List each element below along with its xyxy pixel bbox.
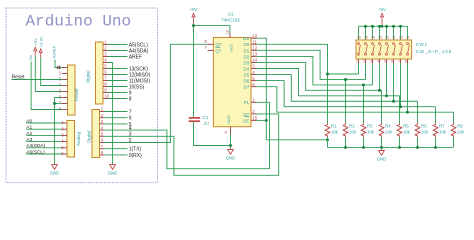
wire switch 4 top feed xyxy=(379,26,381,40)
wire Digital-top pin 6 xyxy=(108,74,128,76)
svg-text:14: 14 xyxy=(252,58,257,63)
wire GND bus under resistors xyxy=(328,146,454,148)
pin Digital-bottom 7 stub xyxy=(100,148,105,150)
svg-text:D2: D2 xyxy=(244,54,250,59)
wire R7 to GND bus xyxy=(435,137,437,147)
junction +5V bus 7 xyxy=(399,25,402,28)
pin U1 VCC 16 stub xyxy=(229,33,231,38)
pin Analog 4 stub xyxy=(62,141,67,143)
wire switch 2 top feed xyxy=(365,26,367,40)
svg-text:7: 7 xyxy=(398,59,400,63)
svg-text:13: 13 xyxy=(252,52,257,57)
junction +5V tee xyxy=(192,24,195,27)
pin U1 Q7-bar 7 (unconnected) xyxy=(208,49,214,51)
wire switch 7 top feed xyxy=(400,26,402,40)
wire Digital-bottom pin 8 xyxy=(104,154,128,156)
wire IOREF to power pin1 xyxy=(55,60,62,68)
svg-text:15: 15 xyxy=(364,35,368,39)
svg-text:GND: GND xyxy=(226,156,236,161)
svg-text:D4: D4 xyxy=(244,66,250,71)
pin U1 DS 10 stub xyxy=(251,37,257,39)
svg-text:SW1: SW1 xyxy=(416,42,428,47)
svg-text:R5: R5 xyxy=(403,124,409,129)
svg-text:A2: A2 xyxy=(26,131,32,137)
header J-power box xyxy=(68,65,76,115)
svg-text:R7: R7 xyxy=(439,124,445,129)
pin U1 D3 14 stub xyxy=(251,61,257,63)
switch element 2 xyxy=(365,43,367,45)
pin Power 7 stub xyxy=(62,103,68,105)
pin Analog 5 stub xyxy=(62,147,67,149)
junction GND bus R2 xyxy=(344,146,347,149)
junction GND bus R6 xyxy=(416,146,419,149)
pin Analog 6 stub xyxy=(62,153,67,155)
svg-text:10: 10 xyxy=(399,35,403,39)
resistor R6 xyxy=(415,123,420,137)
wire R3 to GND bus xyxy=(363,137,365,147)
wire net GND: DS and CE to pulldown bus xyxy=(257,38,328,140)
svg-text:Q7: Q7 xyxy=(215,42,222,47)
svg-text:2: 2 xyxy=(363,59,365,63)
svg-text:A1: A1 xyxy=(26,125,32,131)
junction net D7 xyxy=(406,111,409,114)
pin Digital-top 9 stub xyxy=(103,92,108,94)
pin Digital-top 3 stub xyxy=(103,56,108,58)
svg-text:GND: GND xyxy=(377,157,387,162)
wire analog net A3 xyxy=(26,141,62,143)
ground GND (Arduino power) xyxy=(52,165,58,170)
pin U1 D0 11 stub xyxy=(251,43,257,45)
svg-text:+5V: +5V xyxy=(378,7,386,12)
wire net D3: IC pin to switch 4 and R4 xyxy=(257,62,382,90)
pin U1 PL 1 stub xyxy=(251,101,257,103)
wire C1 bottom to GND xyxy=(194,122,231,145)
switch element 6 xyxy=(393,43,395,45)
wire GND bus stub down xyxy=(381,147,383,150)
resistor R3 xyxy=(361,123,366,137)
pin Digital-top 6 stub xyxy=(103,74,108,76)
pin Digital-top 8 stub xyxy=(103,86,108,88)
svg-text:2: 2 xyxy=(129,138,132,144)
wire switch 2 drop xyxy=(365,63,367,79)
svg-text:IOREF: IOREF xyxy=(51,45,56,58)
svg-text:9: 9 xyxy=(407,35,409,39)
svg-text:8: 8 xyxy=(405,59,407,63)
wire analog net A5(SCL) xyxy=(26,153,62,155)
pin U1 CE 15 stub xyxy=(251,119,257,121)
junction +5V bus 6 xyxy=(392,25,395,28)
pin switch bottom 6 xyxy=(393,59,395,63)
svg-text:11: 11 xyxy=(252,40,257,45)
svg-text:Arduino Uno: Arduino Uno xyxy=(26,13,132,31)
svg-text:GND: GND xyxy=(226,115,231,124)
svg-text:A4(SDA): A4(SDA) xyxy=(26,143,45,149)
junction power GND xyxy=(53,102,56,105)
pin Power 4 stub xyxy=(62,85,68,87)
svg-text:10k: 10k xyxy=(439,130,447,135)
wire IC GND pin 8 xyxy=(230,134,232,146)
no-connect cross on IOREF pin xyxy=(57,66,60,69)
switch element 4 xyxy=(379,43,381,45)
wire Digital-top pin 2 xyxy=(108,50,128,52)
svg-text:11: 11 xyxy=(392,35,396,39)
wire switch 3 drop xyxy=(372,63,374,85)
svg-text:6: 6 xyxy=(391,59,393,63)
resistor R1 xyxy=(325,123,330,137)
svg-text:4: 4 xyxy=(377,59,379,63)
svg-text:Power: Power xyxy=(74,88,79,101)
wire R5 to GND bus xyxy=(399,137,401,147)
svg-text:C1: C1 xyxy=(203,115,209,120)
svg-text:10k: 10k xyxy=(367,130,375,135)
svg-text:1(TX): 1(TX) xyxy=(129,147,142,153)
pin Analog 3 stub xyxy=(62,134,67,136)
pin Digital-bottom 5 stub xyxy=(100,135,105,137)
svg-text:3: 3 xyxy=(370,59,372,63)
wire analog net A0 xyxy=(26,122,62,124)
svg-text:D6: D6 xyxy=(244,79,250,84)
svg-text:SW_DIP_x08: SW_DIP_x08 xyxy=(416,49,452,54)
svg-text:10k: 10k xyxy=(331,130,339,135)
junction net D5 xyxy=(392,100,395,103)
junction +5V bus feed xyxy=(381,25,384,28)
header J-analog box xyxy=(67,121,75,158)
wire Digital-bottom pin 2 xyxy=(104,117,128,119)
svg-text:R2: R2 xyxy=(349,124,355,129)
junction net D6 xyxy=(399,105,402,108)
wire Digital-bottom pin 1 xyxy=(104,111,128,113)
pin U1 Q7 9 xyxy=(208,43,214,45)
wire +5V to VCC and C1 xyxy=(194,26,230,33)
junction net D2 xyxy=(362,83,365,86)
wire GND stub down xyxy=(230,146,232,150)
svg-text:Vin: Vin xyxy=(28,55,33,61)
svg-text:AREF: AREF xyxy=(129,54,142,60)
svg-text:5: 5 xyxy=(384,59,386,63)
wire +5V bus over switch xyxy=(359,25,408,27)
svg-text:CP: CP xyxy=(243,112,249,117)
ground GND (Arduino digital) xyxy=(110,165,116,170)
wire Digital-bottom pin 3 xyxy=(104,123,128,125)
wire power GND pins 6-7 xyxy=(55,97,63,99)
pin switch bottom 7 xyxy=(400,59,402,63)
switch element 8 xyxy=(407,43,409,45)
svg-text:10k: 10k xyxy=(457,130,465,135)
svg-text:A0: A0 xyxy=(26,118,32,124)
pin Digital-top 5 stub xyxy=(103,68,108,70)
svg-text:13: 13 xyxy=(378,35,382,39)
svg-text:U1: U1 xyxy=(228,11,234,16)
svg-text:Q7: Q7 xyxy=(215,48,222,53)
resistor R5 xyxy=(397,123,402,137)
wire CE to GND net xyxy=(257,119,267,121)
pin Digital-bottom 2 stub xyxy=(100,117,105,119)
switch element 5 xyxy=(386,43,388,45)
resistor R4 xyxy=(379,123,384,137)
svg-text:74HC165: 74HC165 xyxy=(221,17,241,22)
svg-text:D1: D1 xyxy=(244,48,250,53)
wire switch 7 drop xyxy=(400,63,402,106)
pin switch bottom 1 xyxy=(358,59,360,63)
resistor R7 xyxy=(433,123,438,137)
pin Digital-top 1 stub xyxy=(103,44,108,46)
wire net D0: IC pin to switch 1 and R1 xyxy=(257,44,328,123)
wire switch 8 drop xyxy=(407,63,409,112)
svg-text:15: 15 xyxy=(252,116,257,121)
svg-text:8: 8 xyxy=(129,96,132,102)
wire Digital-top pin4 GND net xyxy=(108,63,113,165)
svg-text:A5(SCL): A5(SCL) xyxy=(26,149,45,155)
svg-text:R1: R1 xyxy=(331,124,337,129)
wire R2 to GND bus xyxy=(345,137,347,147)
svg-text:D3: D3 xyxy=(244,60,250,65)
wire R8 to GND bus xyxy=(453,137,455,147)
junction +5V bus 5 xyxy=(385,25,388,28)
svg-text:Digital: Digital xyxy=(85,70,90,83)
wire net D5: IC pin to switch 6 and R6 xyxy=(257,75,418,102)
pin Digital-bottom 3 stub xyxy=(100,123,105,125)
ground GND (resistors) xyxy=(379,151,385,156)
svg-text:3: 3 xyxy=(129,132,132,138)
wire analog net A4(SDA) xyxy=(26,147,62,149)
frame Arduino Uno module outline xyxy=(6,8,158,183)
svg-text:16: 16 xyxy=(226,30,230,34)
ground GND (IC) xyxy=(228,150,234,155)
wire R1 to GND bus xyxy=(327,137,329,147)
svg-text:+3.3V: +3.3V xyxy=(39,36,44,47)
wire switch 3 top feed xyxy=(372,26,374,40)
pin Power 8 stub xyxy=(62,109,68,111)
wire net D6: IC pin to switch 7 and R7 xyxy=(257,81,436,107)
wire Digital-top pin 8 xyxy=(108,86,128,88)
svg-text:0(RX): 0(RX) xyxy=(129,153,142,159)
wire +3.3V to power pin4 xyxy=(41,57,62,85)
resistor R2 xyxy=(343,123,348,137)
wire +5V to power pin5 xyxy=(35,56,62,92)
svg-text:PL: PL xyxy=(244,100,250,105)
pin U1 D6 5 stub xyxy=(251,80,257,82)
junction net D0 xyxy=(326,73,329,76)
wire Digital-top pin 1 xyxy=(108,44,128,46)
overbar CE label xyxy=(244,116,249,118)
svg-text:A3: A3 xyxy=(26,137,32,143)
wire Digital-top pin 10 xyxy=(108,98,128,100)
pin Digital-top 7 stub xyxy=(103,80,108,82)
pin U1 D4 3 stub xyxy=(251,68,257,70)
pin Digital-bottom 4 stub xyxy=(100,129,105,131)
resistor R8 xyxy=(451,123,456,137)
wire switch 6 top feed xyxy=(393,26,395,40)
pin Digital-bottom 1 stub xyxy=(100,111,105,113)
svg-text:12: 12 xyxy=(252,46,257,51)
svg-text:R8: R8 xyxy=(457,124,463,129)
wire switch 1 top feed xyxy=(358,26,360,40)
svg-text:4: 4 xyxy=(129,126,132,132)
svg-text:VCC: VCC xyxy=(228,44,233,52)
svg-text:14: 14 xyxy=(371,35,375,39)
wire switch 1 drop xyxy=(358,63,360,74)
pin U1 D1 12 stub xyxy=(251,49,257,51)
svg-text:6: 6 xyxy=(129,116,132,122)
pin switch bottom 8 xyxy=(407,59,409,63)
junction GND bus R3 xyxy=(362,146,365,149)
wire Digital-bottom pin 7 xyxy=(104,148,128,150)
junction GND bus R5 xyxy=(398,146,401,149)
pin switch bottom 5 xyxy=(386,59,388,63)
svg-text:10k: 10k xyxy=(421,130,429,135)
pin U1 D5 4 stub xyxy=(251,74,257,76)
switch element 1 xyxy=(358,43,360,45)
svg-text:+5V: +5V xyxy=(33,38,38,46)
switch element 3 xyxy=(372,43,374,45)
pin Power 5 stub xyxy=(62,91,68,93)
wire net D1: IC pin to switch 2 and R2 xyxy=(257,50,366,79)
pin Digital-top 4 stub xyxy=(103,62,108,64)
svg-text:D0: D0 xyxy=(244,42,250,47)
wire analog net A1 xyxy=(26,128,62,130)
wire analog net A2 xyxy=(26,134,62,136)
wire R4 to GND bus xyxy=(381,137,383,147)
pin switch bottom 2 xyxy=(365,59,367,63)
junction +5V bus 3 xyxy=(371,25,374,28)
svg-text:D5: D5 xyxy=(244,72,250,77)
pin Analog 1 stub xyxy=(62,122,67,124)
pin U1 D2 13 stub xyxy=(251,55,257,57)
pin Digital-top 10 stub xyxy=(103,98,108,100)
svg-text:GND: GND xyxy=(108,171,118,176)
svg-text:GND: GND xyxy=(50,171,60,176)
pin Power 2 stub xyxy=(62,73,68,75)
svg-text:1: 1 xyxy=(356,59,358,63)
svg-text:16: 16 xyxy=(357,35,361,39)
wire switch 6 drop xyxy=(393,63,395,101)
wire Reset to power pin3 xyxy=(12,79,63,81)
wire net D7: IC pin to switch 8 and R8 xyxy=(257,87,454,113)
junction IC GND xyxy=(229,144,232,147)
switch SW1 body xyxy=(356,40,412,59)
junction +5V bus 4 xyxy=(378,25,381,28)
svg-text:CE: CE xyxy=(243,118,249,123)
capacitor C1 xyxy=(189,117,200,119)
wire switch 5 drop xyxy=(386,63,388,96)
svg-text:R6: R6 xyxy=(421,124,427,129)
wire switch 8 top feed xyxy=(407,26,409,40)
svg-text:12: 12 xyxy=(385,35,389,39)
pin Power 6 stub xyxy=(62,97,68,99)
pin Digital-top 2 stub xyxy=(103,50,108,52)
pin Digital-bottom 8 stub xyxy=(100,154,105,156)
pin U1 GND 8 stub xyxy=(230,127,232,134)
pin switch bottom 3 xyxy=(372,59,374,63)
svg-text:10: 10 xyxy=(252,33,257,38)
svg-text:10k: 10k xyxy=(349,130,357,135)
pin U1 CP 2 stub xyxy=(251,113,257,115)
pin U1 D7 6 stub xyxy=(251,86,257,88)
header J-digital-top box xyxy=(96,42,104,104)
pin Power 1 stub xyxy=(62,67,68,69)
junction net D3 xyxy=(378,89,381,92)
svg-text:10k: 10k xyxy=(403,130,411,135)
wire Digital-top pin 3 xyxy=(108,56,128,58)
header J-digital-bottom box xyxy=(92,110,100,158)
junction GND net to R1 lead xyxy=(326,138,329,141)
wire Digital-top pin 9 xyxy=(108,92,128,94)
svg-text:D7: D7 xyxy=(244,85,250,90)
svg-text:R3: R3 xyxy=(367,124,373,129)
wire net D4: IC pin to switch 5 and R5 xyxy=(257,69,400,96)
pin Analog 2 stub xyxy=(62,128,67,130)
wire Vin to power pin8 xyxy=(31,62,62,110)
pin Digital-bottom 6 stub xyxy=(100,142,105,144)
IC U1 74HC165 body xyxy=(213,38,251,127)
svg-text:Digital: Digital xyxy=(86,130,91,143)
wire switch 5 top feed xyxy=(386,26,388,40)
junction CE-GND xyxy=(265,119,268,122)
wire Digital-top pin 5 xyxy=(108,68,128,70)
junction GND bus R4 xyxy=(380,146,383,149)
svg-text:+5V: +5V xyxy=(190,7,198,12)
wire switch 4 drop xyxy=(379,63,381,90)
pin Power 3 stub xyxy=(62,79,68,81)
junction net D4 xyxy=(385,94,388,97)
junction +5V bus 2 xyxy=(364,25,367,28)
switch element 7 xyxy=(400,43,402,45)
junction net D1 xyxy=(344,78,347,81)
junction GND bus R7 xyxy=(434,146,437,149)
svg-text:7: 7 xyxy=(129,109,132,115)
svg-text:.1u: .1u xyxy=(203,120,210,125)
svg-text:Analog: Analog xyxy=(76,131,81,146)
svg-text:DS: DS xyxy=(243,36,249,41)
svg-text:10k: 10k xyxy=(385,130,393,135)
pin switch bottom 4 xyxy=(379,59,381,63)
wire Digital-top pin 7 xyxy=(108,80,128,82)
svg-text:R4: R4 xyxy=(385,124,391,129)
wire net D2: IC pin to switch 3 and R3 xyxy=(257,56,373,85)
wire R6 to GND bus xyxy=(417,137,419,147)
svg-text:10: 10 xyxy=(104,94,109,99)
